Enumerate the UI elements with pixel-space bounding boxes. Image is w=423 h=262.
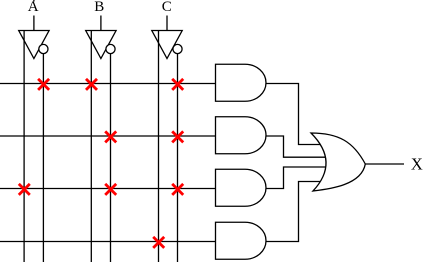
wire AND4 output to OR [260, 182, 330, 242]
inverter triangle A [19, 31, 49, 59]
inverting bubble C [173, 44, 182, 53]
connection cross row4 C [153, 237, 164, 248]
wire product row 4 [0, 241, 240, 243]
svg-text:C: C [162, 0, 172, 15]
wire product row 3 [0, 188, 240, 190]
wire input B vertical [100, 16, 102, 31]
svg-text:A: A [28, 0, 39, 15]
buffer/inverter driver A [19, 31, 49, 59]
AND gate 3 [216, 169, 267, 206]
connection cross row3 C' [172, 184, 183, 195]
wire OR output [365, 163, 404, 165]
buffer/inverter driver B [86, 31, 116, 59]
wire column B true [90, 30, 92, 262]
wire column C true [158, 30, 160, 262]
wire AND2 output to OR [260, 136, 330, 157]
inverting bubble A [39, 44, 48, 53]
inverter triangle B [86, 31, 116, 59]
wire column C complement [177, 54, 179, 262]
connection cross row2 B' [105, 131, 116, 142]
inverting bubble B [106, 44, 115, 53]
inverter triangle C [152, 31, 182, 59]
AND gate 4 [216, 222, 267, 259]
wire column A true [23, 30, 25, 262]
svg-text:X: X [411, 155, 423, 174]
connection cross row1 A' [38, 79, 49, 90]
OR gate [311, 133, 365, 191]
wire column B complement [110, 54, 112, 262]
wire AND3 output to OR [260, 167, 330, 189]
connection cross row1 B [86, 79, 97, 90]
wire input C vertical [166, 16, 168, 31]
connection cross row3 B' [105, 184, 116, 195]
wire column A complement [42, 54, 44, 262]
buffer/inverter driver C [152, 31, 182, 59]
wire product row 1 [0, 83, 240, 85]
wire input A vertical [33, 0, 35, 31]
AND gate 2 [216, 117, 267, 154]
connection cross row2 C' [172, 131, 183, 142]
svg-text:B: B [94, 0, 104, 15]
wire AND1 output to OR [260, 84, 330, 145]
label A background [26, 2, 41, 16]
wire product row 2 [0, 135, 240, 137]
AND gate 1 [216, 64, 266, 101]
connection cross row3 A [19, 184, 30, 195]
connection cross row1 C' [172, 79, 183, 90]
